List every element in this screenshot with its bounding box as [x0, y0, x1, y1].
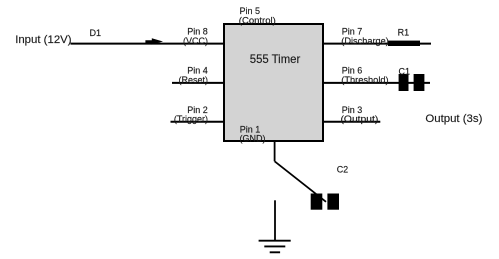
svg-text:R1: R1	[398, 28, 410, 38]
svg-text:(Threshold): (Threshold)	[341, 75, 388, 85]
svg-text:(GND): (GND)	[240, 133, 266, 143]
svg-text:(Control): (Control)	[239, 15, 276, 25]
svg-text:Output (3s): Output (3s)	[425, 113, 482, 125]
svg-text:Input (12V): Input (12V)	[15, 34, 72, 46]
svg-text:C1: C1	[399, 67, 411, 77]
svg-text:(Reset): (Reset)	[178, 75, 208, 85]
svg-text:(Discharge): (Discharge)	[341, 36, 389, 46]
svg-text:(Output): (Output)	[341, 114, 379, 124]
svg-text:(VCC): (VCC)	[183, 36, 208, 46]
svg-text:555 Timer: 555 Timer	[250, 52, 301, 66]
svg-text:(Trigger): (Trigger)	[174, 114, 208, 124]
svg-text:C2: C2	[337, 165, 349, 175]
svg-text:D1: D1	[90, 28, 102, 38]
